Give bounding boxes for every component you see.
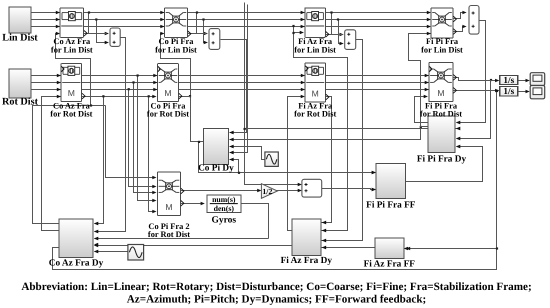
svg-text:1/2: 1/2 — [262, 187, 272, 196]
svg-text:M: M — [164, 88, 171, 98]
subsystem Fi Az Fra for Rot Dist — [305, 63, 326, 102]
input arrow Fi Az Fra Dy in3 — [322, 239, 326, 243]
wire arrow into row-1 block — [56, 25, 60, 29]
wire tap bus2 to Sum3 in2 — [339, 20, 343, 44]
wire Lin Dist bus — [31, 26, 429, 28]
wire Lin Dist bus — [31, 12, 429, 14]
wire bus3 tap to Co Pi Fra 2 in2 — [129, 90, 156, 187]
output ports Fi Pi Fra for Rot Dist — [453, 75, 456, 81]
wire Sum2 out to Co Pi Dy in1 — [221, 40, 247, 133]
wire Fi Az FF out to Fi Az Dy in4 — [322, 247, 375, 249]
input arrow Fi Az Fra Dy in4 — [322, 246, 326, 250]
wire Fi Pi Dy out1 branch to Co Pi Dy in2 — [230, 127, 421, 140]
svg-text:M: M — [312, 89, 319, 99]
wire Fi Az Rot out to Fi Az Dy in1 — [322, 97, 332, 223]
wire Gain out to Sum5 in2 — [277, 190, 301, 192]
wire arrow into row-2 block — [301, 74, 305, 78]
svg-text:Fi Pi Fra FF: Fi Pi Fra FF — [366, 201, 416, 211]
wire Co Pi Rot out — [179, 96, 191, 98]
wire bus1 tap to Co Pi Fra 2 in4 — [138, 76, 156, 201]
sum block S2 — [209, 29, 220, 50]
wire arrow into row-2 block — [153, 81, 157, 85]
input arrow Co Az Fra Dy in4 — [94, 243, 98, 247]
dynamics block Fi Az Fra Dy — [292, 219, 321, 256]
wire Sum4 out to Fi Pi Dy in1 — [457, 21, 486, 123]
wire Fi Pi Lin out1 to Sum4 in1 — [453, 13, 466, 19]
wire 1s tap to Fi Pi Dy in3 — [457, 81, 491, 139]
wire Fi Az Dy out2 to Co Az Fra Dy in4 — [95, 245, 292, 247]
wire tap bus1 to Sum3 in1 — [332, 13, 343, 35]
svg-text:for Lin Dist: for Lin Dist — [51, 45, 93, 54]
wire Co Az Lin out to Sum1 — [84, 33, 107, 35]
wire Sum1 out to Co Az Fra Dy in2 — [95, 38, 126, 232]
input arrow Fi Az Fra FF — [404, 247, 408, 251]
wire Sine B to Co Az Fra Dy in5 — [95, 251, 128, 253]
wire Co Pi Fra 2 out1 to Gain — [181, 190, 261, 192]
wire Co Pi Fra 2 out2 to Gyros — [181, 203, 204, 205]
wire bus3 tap to Fi Az Dy in2 — [294, 27, 348, 231]
scope Sine A — [265, 152, 278, 166]
wire Fi Pi Rot out1 to integrator 1 — [453, 78, 499, 81]
input arrow Fi Az Fra Dy in2 — [322, 229, 326, 233]
wire tap to Co Az Fra Dy in1 — [95, 97, 104, 224]
svg-text:for Rot Dist: for Rot Dist — [50, 109, 92, 118]
output ports Co Pi Fra 2 — [181, 188, 184, 194]
svg-text:Az=Azimuth; Pi=Pitch; Dy=Dynam: Az=Azimuth; Pi=Pitch; Dy=Dynamics; FF=Fo… — [127, 293, 427, 305]
svg-text:1/s: 1/s — [503, 75, 514, 85]
wire Co Az Fra Dy out3 bottom bus — [53, 91, 497, 270]
svg-text:for Lin Dist: for Lin Dist — [421, 45, 463, 54]
subsystem Co Pi Fra for Lin Dist — [165, 8, 188, 37]
wire branch to Fi Az Fra FF input — [407, 248, 497, 250]
subsystem Co Az Fra for Rot Dist — [61, 64, 82, 102]
wire Fi Pi FF out to Fi Pi Dy in4 — [406, 147, 483, 182]
wire Co Az Rot out to Co Pi Rot in5 — [82, 96, 156, 98]
wire Fi Pi Dy out1 to Fi Pi Lin in4 — [409, 34, 431, 127]
wire Rot Dist bus — [31, 82, 429, 84]
svg-text:Fi Pi Fra Dy: Fi Pi Fra Dy — [417, 155, 467, 165]
wire arrow into row-1 block — [427, 11, 431, 15]
svg-text:Gyros: Gyros — [211, 216, 236, 226]
wire integrator 1 to scope 1 — [518, 80, 529, 82]
integrator 1/s upper — [500, 76, 518, 85]
subsystem Co Pi Fra 2 for Rot Dist — [158, 172, 181, 216]
wire arrow into row-2 block — [425, 74, 429, 78]
wire Co Az Fra Dy out1 feedback corridor — [33, 106, 106, 224]
input arrow Co Az Fra Dy in1 — [94, 222, 98, 226]
dynamics block Fi Pi Fra Dy — [428, 116, 455, 152]
input arrow Fi Az Fra Dy in1 — [322, 221, 326, 225]
sum block S1 — [110, 28, 120, 46]
input arrow Co Az Fra Dy in3 — [94, 237, 98, 241]
wire branch to Fi Az Lin in4 — [294, 32, 303, 34]
wire Co Pi Dy out loop to Co Pi Dy in5 — [199, 142, 375, 173]
wire arrow into row-1 block — [301, 11, 305, 15]
wire Sum5 out to Fi Pi FF in2 — [322, 189, 375, 190]
input arrow Fi Pi Fra FF — [372, 171, 376, 175]
wire y238 to Co Az Fra Dy in3 — [95, 238, 269, 240]
wire Fi Pi Dy out2 to Fi Pi Rot in5 — [415, 97, 429, 123]
feedforward block Fi Az Fra FF — [375, 238, 404, 259]
wire arrow into row-2 block — [153, 88, 157, 92]
svg-text:Abbreviation: Lin=Linear; Rot=: Abbreviation: Lin=Linear; Rot=Rotary; Di… — [21, 281, 531, 293]
wire tap bus1 to Sum2 in1 — [197, 13, 207, 34]
sum block S4 — [469, 6, 479, 35]
wire Fi Az Dy out1 to Fi Az Rot in5 — [288, 97, 304, 231]
svg-text:M: M — [437, 88, 444, 98]
input arrow Co Az Fra Dy in2 — [94, 230, 98, 234]
wire tap bus2 to Sum1 in2 — [97, 20, 108, 43]
wire Sine A to Co Pi Dy in3 — [230, 147, 265, 160]
input arrow Co Pi Dy in1 — [229, 131, 233, 135]
wire arrow into row-2 block — [301, 81, 305, 85]
dynamics block Co Pi Dy — [203, 128, 228, 164]
sum block S5 — [302, 179, 322, 197]
scope Sine B — [128, 245, 144, 261]
wire Lin Dist bus — [31, 19, 429, 21]
source block Lin Dist — [9, 7, 31, 33]
wire arrow into row-1 block — [160, 11, 164, 15]
subsystem Co Az Fra for Lin Dist — [60, 8, 84, 37]
subsystem Co Pi Fra for Rot Dist — [158, 64, 179, 102]
input arrow Fi Pi Fra FF — [372, 188, 376, 192]
input arrow Fi Pi Fra Dy in1 — [456, 121, 460, 125]
wire arrow into row-1 block — [160, 25, 164, 29]
svg-text:Co Az Fra Dy: Co Az Fra Dy — [49, 259, 104, 269]
subsystem Fi Az Fra for Lin Dist — [305, 8, 326, 37]
wire Co Pi Lin out to Sum2 — [188, 33, 207, 35]
wire Fi Pi Rot out2 to integrator 2 — [453, 90, 499, 92]
wire arrow into row-1 block — [56, 18, 60, 22]
wire riser x244 to Fi Pi Dy in2 and Sum5 in1 — [245, 3, 301, 185]
feedforward block Fi Pi Fra FF — [376, 164, 406, 199]
input arrow Co Pi Dy in3 — [229, 145, 233, 149]
input arrow Fi Pi Fra Dy in4 — [456, 145, 460, 149]
wire riser x247 to Co Pi Dy in4 — [230, 5, 248, 153]
wire Sum3 out to Fi Az Dy in3 — [322, 40, 363, 241]
subsystem Fi Pi Fra for Rot Dist — [429, 63, 453, 102]
input arrow Fi Pi Fra Dy in3 — [456, 137, 460, 141]
gain block 1/2 — [261, 184, 277, 199]
source block Rot Dist — [9, 69, 31, 98]
wire arrow into row-1 block — [301, 25, 305, 29]
wire arrow into row-1 block — [427, 25, 431, 29]
subsystem Fi Pi Fra for Lin Dist — [431, 8, 453, 38]
svg-text:for Rot Dist: for Rot Dist — [148, 230, 190, 239]
wire Co Pi Dy out to Co Pi Lin in4 — [161, 34, 204, 142]
input arrow Co Pi Dy in2 — [229, 138, 233, 142]
input arrow Co Pi Dy in4 — [229, 151, 233, 155]
wire arrow into row-2 block — [425, 81, 429, 85]
input arrow Co Az Fra Dy in5 — [94, 250, 98, 254]
svg-text:Co Pi Dy: Co Pi Dy — [198, 164, 234, 174]
svg-text:for Rot Dist: for Rot Dist — [294, 109, 336, 118]
wire arrow into row-1 block — [56, 11, 60, 15]
scope display lower — [530, 86, 545, 99]
sum block S3 — [345, 30, 356, 50]
wire bus2 tap to Co Pi Fra 2 in3 — [134, 83, 156, 193]
svg-text:num(s): num(s) — [212, 195, 236, 204]
input arrow Fi Pi Fra Dy in2 — [456, 127, 460, 131]
svg-text:for Rot Dist: for Rot Dist — [147, 109, 189, 118]
svg-text:M: M — [68, 88, 75, 98]
svg-text:1/s: 1/s — [503, 86, 514, 96]
wire Gyros out feedback loop — [241, 204, 269, 239]
wire tap to Co Pi Fra 2 bottom input — [149, 97, 156, 212]
svg-text:Fi Az Fra Dy: Fi Az Fra Dy — [281, 256, 333, 266]
wire arrow into row-2 block — [425, 88, 429, 92]
input arrow Co Pi Dy in5 — [229, 158, 233, 162]
wire corridor to Co Pi Fra 2 in1 — [106, 106, 156, 178]
svg-text:for Lin Dist: for Lin Dist — [155, 45, 197, 54]
svg-text:M: M — [165, 202, 172, 212]
svg-text:Lin Dist: Lin Dist — [2, 33, 38, 44]
svg-text:den(s): den(s) — [214, 204, 235, 213]
scope display upper — [530, 73, 545, 86]
svg-text:for Rot Dist: for Rot Dist — [420, 109, 462, 118]
wire Co Az Fra Dy out2 to Co Az Rot in5 — [42, 97, 61, 231]
wire arrow into row-1 block — [301, 18, 305, 22]
wire Rot Dist bus — [31, 75, 429, 77]
wire tap bus2 to Sum2 in2 — [204, 20, 207, 43]
output ports Fi Pi Fra for Lin Dist — [453, 16, 456, 22]
wire integrator 2 to scope 2 — [518, 91, 529, 93]
wire arrow into row-1 block — [427, 18, 431, 22]
svg-text:for Lin Dist: for Lin Dist — [294, 45, 336, 54]
wire Fi Az Lin out to Sum3 — [326, 34, 343, 36]
integrator 1/s lower — [500, 86, 518, 96]
transfer function Gyros — [207, 195, 241, 213]
wire arrow into row-2 block — [57, 88, 61, 92]
svg-text:Fi Az Fra FF: Fi Az Fra FF — [364, 260, 416, 270]
wire arrow into row-2 block — [301, 88, 305, 92]
wire arrow into row-2 block — [153, 74, 157, 78]
wire Fi Pi Lin out2 to Sum4 in2 — [453, 27, 466, 32]
wire Rot Dist bus — [31, 89, 429, 91]
wire Az feedback to Co Az Lin in4 — [56, 34, 91, 106]
dynamics block Co Az Fra Dy — [59, 219, 93, 258]
wire tap bus1 to Sum1 in1 — [89, 13, 108, 34]
wire arrow into row-2 block — [57, 81, 61, 85]
wire arrow into row-2 block — [57, 74, 61, 78]
wire arrow into row-1 block — [160, 18, 164, 22]
